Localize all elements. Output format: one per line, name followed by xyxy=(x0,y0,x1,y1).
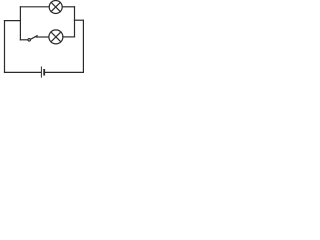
wire left stub (left bus to outer left) xyxy=(5,20,21,22)
switch S1 xyxy=(20,36,37,41)
wire lamp L2 to right bus xyxy=(63,36,75,38)
wire bottom right (battery to outer right) xyxy=(45,71,84,73)
wire right stub (right bus to outer right) xyxy=(75,19,84,21)
wire left bus (node A down to switch) xyxy=(19,7,21,40)
wire top rail left (node A to lamp L1) xyxy=(20,6,49,8)
lamp L1 xyxy=(49,1,62,14)
lamp L2 xyxy=(49,30,63,44)
wire outer right vertical xyxy=(82,20,84,72)
wire switch to lamp L2 xyxy=(36,36,49,38)
wire top rail right (lamp L1 to node B) xyxy=(62,6,74,8)
wire right bus (node B down to lamp L2 branch) xyxy=(74,7,76,37)
wire bottom left (to battery) xyxy=(5,71,41,73)
battery B1 xyxy=(41,67,44,77)
wire outer left vertical xyxy=(4,21,6,73)
